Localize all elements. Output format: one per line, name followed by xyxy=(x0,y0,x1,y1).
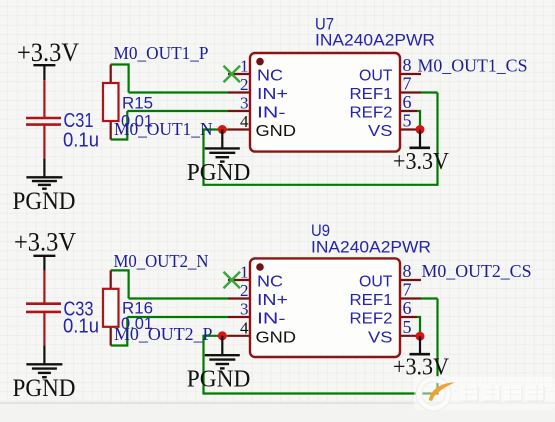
svg-text:PGND: PGND xyxy=(187,367,251,393)
svg-text:3: 3 xyxy=(240,300,249,319)
svg-text:0.01: 0.01 xyxy=(121,113,153,131)
svg-text:1: 1 xyxy=(240,57,249,76)
svg-text:REF1: REF1 xyxy=(350,292,393,309)
svg-text:OUT: OUT xyxy=(359,68,393,85)
svg-text:M0_OUT1_P: M0_OUT1_P xyxy=(114,43,209,63)
svg-text:VS: VS xyxy=(368,123,393,140)
svg-text:NC: NC xyxy=(257,68,283,85)
svg-text:IN-: IN- xyxy=(257,311,286,328)
svg-text:M0_OUT2_CS: M0_OUT2_CS xyxy=(422,261,532,281)
svg-text:REF1: REF1 xyxy=(350,86,393,103)
svg-text:PGND: PGND xyxy=(187,160,251,186)
svg-text:+3.3V: +3.3V xyxy=(17,38,79,67)
svg-text:4: 4 xyxy=(240,112,249,131)
svg-text:+3.3V: +3.3V xyxy=(14,227,76,256)
svg-text:PGND: PGND xyxy=(13,375,76,402)
svg-text:5: 5 xyxy=(403,317,412,337)
svg-text:IN-: IN- xyxy=(257,105,286,122)
svg-text:2: 2 xyxy=(240,75,249,94)
svg-text:INA240A2PWR: INA240A2PWR xyxy=(315,32,435,50)
svg-text:PGND: PGND xyxy=(13,188,76,215)
svg-text:1: 1 xyxy=(240,263,249,282)
svg-text:GND: GND xyxy=(256,329,297,346)
svg-text:NC: NC xyxy=(257,274,283,291)
svg-text:VS: VS xyxy=(368,329,393,346)
svg-text:U9: U9 xyxy=(311,222,330,240)
svg-text:REF2: REF2 xyxy=(350,311,393,328)
svg-text:M0_OUT1_CS: M0_OUT1_CS xyxy=(418,56,528,76)
svg-text:+3.3V: +3.3V xyxy=(393,149,450,175)
svg-text:0.01: 0.01 xyxy=(121,315,153,333)
svg-text:OUT: OUT xyxy=(359,274,393,291)
svg-text:INA240A2PWR: INA240A2PWR xyxy=(311,239,431,257)
svg-text:3: 3 xyxy=(240,94,249,113)
svg-text:REF2: REF2 xyxy=(350,105,393,122)
svg-text:6: 6 xyxy=(403,92,412,112)
svg-text:M0_OUT2_N: M0_OUT2_N xyxy=(114,251,209,271)
svg-text:6: 6 xyxy=(403,298,412,318)
svg-text:0.1u: 0.1u xyxy=(63,130,99,152)
svg-text:7: 7 xyxy=(403,280,412,300)
svg-text:IN+: IN+ xyxy=(257,292,288,309)
svg-text:0.1u: 0.1u xyxy=(63,316,99,338)
svg-text:R15: R15 xyxy=(122,95,153,113)
svg-text:2: 2 xyxy=(240,281,249,300)
svg-text:8: 8 xyxy=(403,261,412,281)
svg-text:GND: GND xyxy=(256,123,297,140)
svg-text:8: 8 xyxy=(403,55,412,75)
svg-text:7: 7 xyxy=(403,74,412,94)
svg-text:4: 4 xyxy=(240,318,249,337)
svg-text:5: 5 xyxy=(403,111,412,131)
svg-text:IN+: IN+ xyxy=(257,86,288,103)
